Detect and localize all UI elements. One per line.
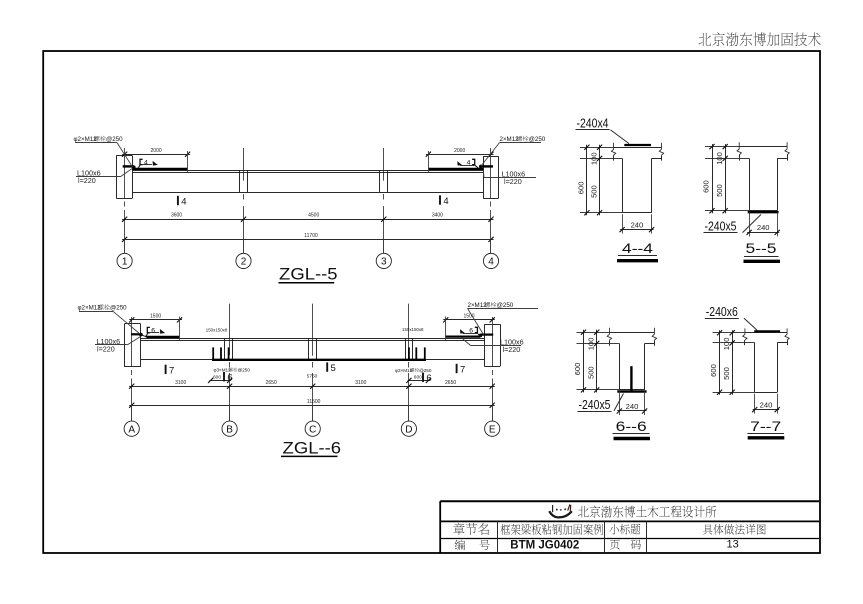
svg-text:100: 100 <box>722 338 731 351</box>
svg-text:4: 4 <box>181 196 186 207</box>
svg-text:@250: @250 <box>529 136 546 143</box>
ZGL-6 right 1500 dimension <box>443 319 495 321</box>
ZGL-6 beam bottom line <box>141 359 485 361</box>
title block cell: zhang jie ming <box>453 523 464 535</box>
ZGL-6 cross beam at grid B <box>224 338 226 359</box>
ZGL-6 left 1500 dimension <box>129 319 182 321</box>
ZGL-6 right top glued plate <box>445 336 480 338</box>
ZGL-5 grid line 3 <box>383 148 385 181</box>
ZGL-6 600 dim near B <box>209 380 230 382</box>
svg-text:2650: 2650 <box>266 380 277 386</box>
svg-text:l=220: l=220 <box>78 176 96 185</box>
svg-text:@250: @250 <box>106 136 123 143</box>
svg-text:ZGL--6: ZGL--6 <box>283 439 342 458</box>
ZGL-6 section mark 6 near B <box>223 372 225 381</box>
svg-text:6: 6 <box>227 373 232 384</box>
ZGL-5 dimension row spans <box>122 219 493 221</box>
section 5--5 slab <box>739 146 787 148</box>
ZGL-6 right weld flag 6 <box>475 327 478 332</box>
section 5--5 height dimensions <box>705 146 739 148</box>
title block cell: project name <box>501 524 511 535</box>
ZGL-6 section mark 7 left <box>165 365 167 374</box>
section 4--4 width dimension 240 <box>622 214 624 233</box>
svg-text:4--4: 4--4 <box>622 241 654 256</box>
svg-text:3400: 3400 <box>432 213 443 219</box>
svg-text:@250: @250 <box>497 302 514 309</box>
svg-text:4: 4 <box>443 196 448 207</box>
ZGL-5 beam bottom line <box>132 192 483 194</box>
svg-text:BTM JG0402: BTM JG0402 <box>510 537 579 551</box>
ZGL-6 grid line C <box>312 304 314 356</box>
svg-text:@250: @250 <box>419 368 432 373</box>
section 5--5 width dimension 240 <box>749 212 751 236</box>
svg-text:3600: 3600 <box>171 213 182 219</box>
svg-text:150x150x8: 150x150x8 <box>402 327 424 332</box>
ZGL-6 beam slab bottom line <box>141 340 485 342</box>
svg-text:1500: 1500 <box>463 314 474 320</box>
svg-text:600: 600 <box>709 364 718 377</box>
svg-text:5: 5 <box>331 363 336 374</box>
ZGL-6 cross beam at grid D <box>405 338 407 359</box>
ZGL-5 cross beam at grid 2 <box>239 170 241 192</box>
svg-text:4: 4 <box>144 160 148 167</box>
section 6--6 width dimension 240 <box>619 391 621 415</box>
svg-text:3100: 3100 <box>355 380 366 386</box>
ZGL-6 right column <box>484 324 486 366</box>
svg-text:4500: 4500 <box>308 213 319 219</box>
ZGL-5 right glued steel plate <box>428 168 483 170</box>
svg-text:-240x5: -240x5 <box>579 397 611 412</box>
svg-text:600: 600 <box>414 375 422 381</box>
svg-text:2000: 2000 <box>454 148 465 154</box>
svg-text:4: 4 <box>488 257 494 268</box>
title block cell: sheet title <box>703 524 713 534</box>
svg-text:-240x5: -240x5 <box>705 218 737 233</box>
svg-text:240: 240 <box>631 220 644 229</box>
ZGL-5 left column <box>116 156 118 199</box>
svg-text:600: 600 <box>573 363 582 376</box>
svg-text:3: 3 <box>381 257 387 268</box>
section 4--4 web <box>622 158 624 212</box>
svg-text:240: 240 <box>760 400 773 409</box>
ZGL-5 grid line 1 <box>124 148 126 198</box>
svg-text:-240x4: -240x4 <box>577 116 609 131</box>
svg-text:l=220: l=220 <box>504 177 522 186</box>
section 4--4 glued top plate <box>624 144 651 146</box>
section 5--5 glued bottom plate <box>748 211 779 213</box>
svg-text:l=220: l=220 <box>503 345 521 354</box>
drawing sheet frame <box>43 51 820 553</box>
title block cell: small title label <box>610 524 619 534</box>
svg-text:E: E <box>489 424 496 435</box>
svg-text:@250: @250 <box>110 305 127 312</box>
ZGL-5 left glued steel plate -2000 long <box>132 168 187 170</box>
section 7--7 web <box>754 343 756 392</box>
svg-text:7: 7 <box>460 364 465 375</box>
ZGL-6 grid line B <box>229 304 231 355</box>
svg-text:11500: 11500 <box>307 399 321 405</box>
svg-text:5--5: 5--5 <box>746 241 777 256</box>
ZGL-6 600 dim near D <box>408 380 430 382</box>
ZGL-6 dimension row spans <box>129 386 495 388</box>
svg-text:φ2×M12: φ2×M12 <box>74 136 98 143</box>
ZGL-6 dimension row total <box>129 405 495 407</box>
svg-text:1: 1 <box>122 257 128 268</box>
ZGL-5 grid line 2 <box>243 148 245 181</box>
section 6--6 slab <box>609 332 654 334</box>
svg-text:240: 240 <box>626 402 639 411</box>
title block cell: bian hao <box>455 540 465 551</box>
ZGL-5 right anchor angle on column <box>481 165 493 167</box>
svg-text:2000: 2000 <box>151 148 162 154</box>
svg-text:150x150x8: 150x150x8 <box>206 327 228 332</box>
ZGL-5 left anchor angle on column <box>123 165 134 167</box>
section 6--6 height dimensions <box>577 332 610 334</box>
svg-text:D: D <box>405 424 412 435</box>
section 6--6 glued bottom plate <box>617 390 646 392</box>
svg-text:l=220: l=220 <box>97 345 115 354</box>
ZGL-5 right 2000 dimension <box>426 154 494 156</box>
ZGL-6 section mark 7 right <box>456 364 458 373</box>
svg-text:500: 500 <box>722 367 731 380</box>
ZGL-6 left column <box>124 324 126 367</box>
svg-text:100: 100 <box>589 152 598 165</box>
ZGL-5 cross beam at grid 3 <box>379 170 381 192</box>
svg-text:6: 6 <box>426 373 431 384</box>
svg-text:2650: 2650 <box>445 380 456 386</box>
ZGL-6 grid bubbles <box>131 405 133 421</box>
ZGL-6 section mark 5 center <box>326 362 328 371</box>
svg-text:-240x6: -240x6 <box>706 304 738 319</box>
svg-text:ZGL--5: ZGL--5 <box>279 265 338 284</box>
svg-text:13: 13 <box>726 539 738 551</box>
section 4--4 height dimensions <box>580 147 614 149</box>
title block company name <box>578 506 589 517</box>
ZGL-5 section mark 4 left <box>177 196 179 205</box>
ZGL-5 right weld flag 4 <box>472 159 475 164</box>
svg-text:3100: 3100 <box>175 380 186 386</box>
svg-text:600: 600 <box>577 182 586 195</box>
ZGL-6 anchor bolts near D <box>408 347 410 360</box>
svg-text:2: 2 <box>241 257 247 268</box>
title block outer lines <box>440 500 819 502</box>
ZGL-6 grid line E <box>492 317 494 366</box>
ZGL-6 left top glued plate <box>131 333 141 335</box>
svg-text:500: 500 <box>587 366 596 379</box>
ZGL-5 section mark 4 right <box>439 195 441 204</box>
ZGL-5 beam slab top line <box>132 170 483 172</box>
ZGL-5 right column <box>483 156 485 198</box>
svg-text:6: 6 <box>151 328 155 335</box>
header text: Beijing Bodongbo reinforcement technology <box>699 33 712 46</box>
ZGL-6 bottom glued plate 5750 <box>212 359 426 361</box>
section 5--5 web <box>749 158 751 210</box>
ZGL-6 anchor bolts near B <box>212 347 214 360</box>
ZGL-5 left 2000 dimension <box>122 154 190 156</box>
ZGL-6 beam slab top line <box>141 338 485 340</box>
svg-text:7: 7 <box>169 365 174 376</box>
svg-text:@250: @250 <box>238 367 251 372</box>
title block vertical separators <box>497 521 499 552</box>
section 7--7 slab <box>745 332 787 334</box>
ZGL-6 section mark 6 near D <box>422 373 424 382</box>
svg-text:500: 500 <box>589 185 598 198</box>
section 4--4 slab <box>614 147 662 149</box>
svg-text:5750: 5750 <box>307 374 318 380</box>
svg-text:6--6: 6--6 <box>616 419 647 434</box>
svg-text:100: 100 <box>587 338 596 351</box>
svg-text:600: 600 <box>213 374 221 380</box>
ZGL-5 left weld flag 4 <box>140 159 143 164</box>
section 6--6 web <box>619 344 621 390</box>
ZGL-5 beam slab bottom line <box>132 172 483 174</box>
section 7--7 glued top plate <box>754 330 780 332</box>
svg-text:A: A <box>128 424 135 435</box>
svg-text:500: 500 <box>715 184 724 197</box>
ZGL-5 dimension row total <box>122 239 493 241</box>
svg-text:1500: 1500 <box>150 314 161 320</box>
ZGL-6 left weld flag 6 <box>147 327 150 332</box>
section 7--7 width dimension 240 <box>754 394 756 414</box>
ZGL-6 cross beam at grid C <box>308 338 310 359</box>
svg-text:2×M12: 2×M12 <box>500 136 520 143</box>
ZGL-5 grid bubbles <box>124 239 126 253</box>
svg-text:7--7: 7--7 <box>750 419 781 434</box>
svg-text:φ3×M12: φ3×M12 <box>395 368 413 373</box>
ZGL-5 grid line 4 <box>490 148 492 198</box>
ZGL-6 grid line A <box>131 317 133 367</box>
company logo swoosh <box>549 511 572 517</box>
ZGL-6 grid line D <box>408 304 410 355</box>
svg-text:C: C <box>309 424 316 435</box>
svg-text:11700: 11700 <box>304 233 318 239</box>
svg-text:100: 100 <box>715 152 724 165</box>
svg-text:2×M12: 2×M12 <box>468 302 488 309</box>
section 7--7 height dimensions <box>713 332 745 334</box>
svg-text:240: 240 <box>757 223 770 232</box>
svg-text:600: 600 <box>702 180 711 193</box>
svg-text:B: B <box>226 424 233 435</box>
svg-text:φ2×M12: φ2×M12 <box>78 305 102 312</box>
title block cell: ye ma page label <box>610 540 620 550</box>
section 6--6 anchor bolt <box>630 366 632 390</box>
